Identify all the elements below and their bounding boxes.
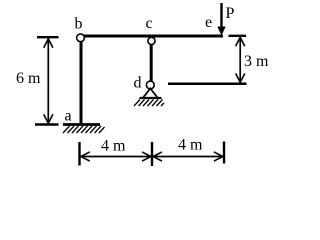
6m dimension arrowhead up	[44, 39, 53, 48]
pin circle at d	[146, 81, 154, 89]
3m dimension vertical arrow line	[239, 37, 241, 82]
link member c-d (middle vertical member)	[150, 40, 153, 84]
right 4m arrowhead right	[214, 152, 223, 161]
column a-b (left vertical member)	[80, 38, 83, 125]
bottom dimension right tick	[223, 142, 225, 164]
right 4m arrowhead left	[153, 152, 162, 161]
load P arrow at e	[217, 3, 225, 36]
6m dimension arrowhead down	[44, 114, 53, 123]
3m dimension top tick	[229, 35, 247, 37]
left 4m arrowhead left	[81, 152, 90, 161]
svg-text:d: d	[134, 75, 142, 92]
beam b-c-e (top horizontal member)	[80, 35, 223, 38]
pin circle at b	[77, 34, 85, 42]
6m dimension bottom tick	[35, 123, 59, 125]
svg-text:4 m: 4 m	[101, 138, 126, 155]
svg-text:4 m: 4 m	[178, 137, 203, 154]
svg-text:6 m: 6 m	[16, 70, 41, 87]
svg-text:3 m: 3 m	[244, 53, 269, 70]
left 4m dimension line	[81, 156, 151, 158]
6m dimension vertical arrow line	[47, 39, 49, 124]
bottom dimension left tick at a	[78, 142, 80, 166]
3m dimension lower reference line	[168, 82, 247, 85]
svg-text:c: c	[146, 15, 153, 32]
bottom dimension middle tick at d	[151, 142, 153, 166]
svg-text:e: e	[205, 14, 212, 31]
3m dimension arrowhead down	[236, 73, 245, 82]
6m dimension top tick	[37, 36, 59, 38]
pin circle at c	[148, 37, 155, 44]
right 4m dimension line	[153, 156, 223, 158]
pin support triangle at d	[143, 89, 158, 99]
hatching under support d	[134, 100, 164, 107]
3m dimension arrowhead up	[236, 37, 245, 46]
fixed support ground line at a	[63, 123, 100, 126]
hatching under support a	[63, 126, 105, 133]
pin support base line at d	[140, 97, 162, 99]
left 4m arrowhead right	[142, 152, 151, 161]
svg-text:b: b	[75, 16, 83, 33]
svg-text:P: P	[226, 5, 235, 22]
svg-text:a: a	[65, 108, 72, 125]
